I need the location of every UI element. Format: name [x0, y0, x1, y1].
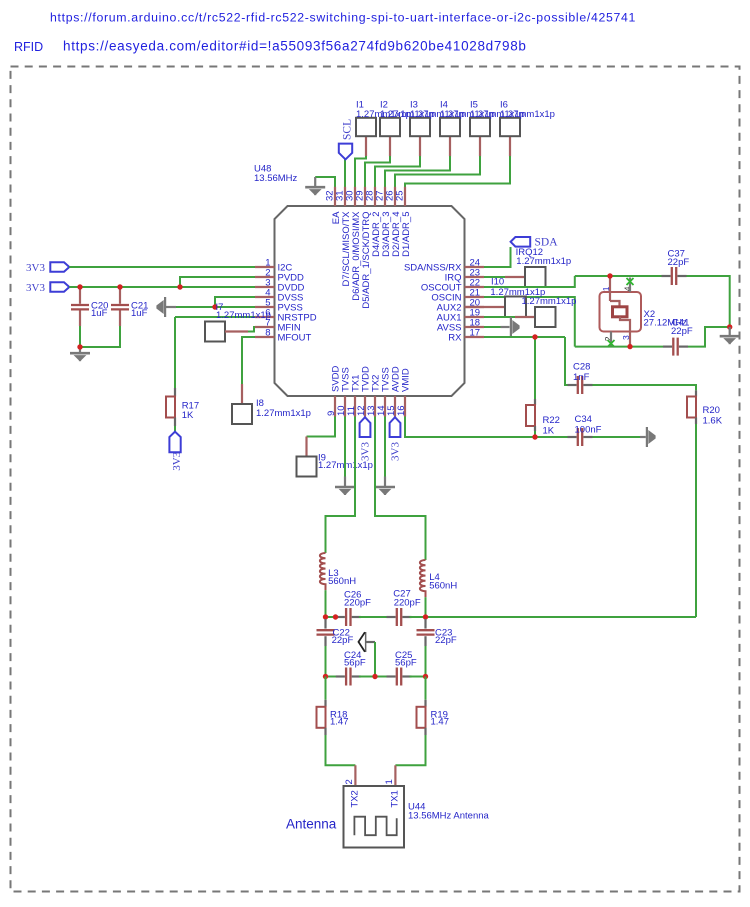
pin 20 AUX2 [437, 298, 484, 314]
wire pin13 TX2 to L4 [375, 417, 426, 561]
pin 3 DVDD [255, 278, 305, 294]
capacitor C21 [111, 305, 129, 309]
resistor R20 top lead [695, 390, 697, 396]
wire branch to pin2 PVDD [180, 277, 255, 287]
wire C34 to ground [593, 436, 641, 438]
junction C24/C25 mid [372, 674, 377, 679]
capacitor C20 top lead [79, 287, 81, 304]
wire header I11 stub [515, 316, 535, 318]
wire header I3 stub [419, 136, 421, 156]
crystal pin2 no-connect [610, 332, 612, 347]
pin 28 D4/ADR_2 [365, 187, 383, 257]
wire IRQ12 stub [505, 276, 525, 278]
crystal pin1 lead [609, 276, 611, 301]
junction crystal pin1 [607, 273, 612, 278]
junction C23/C25/R19 [423, 674, 428, 679]
wire C20 to ground [79, 326, 81, 347]
wire 3V3 rail to pin3 DVDD [69, 286, 255, 288]
junction L4/C23/C27 [423, 614, 428, 619]
wire R20 to antenna net [695, 424, 697, 617]
capacitor C20 [71, 305, 89, 309]
ground PVSS (sideways) [166, 306, 176, 308]
header IRQ12 1.27mm1x1p [525, 267, 546, 287]
wire I5 to U48 pin 26 [395, 156, 480, 187]
junction C21/3V3 [117, 284, 122, 289]
wire I6 to U48 pin 25 [405, 156, 510, 187]
wire pin23 IRQ to IRQ12 [484, 276, 505, 278]
wire I7 stub [225, 330, 248, 332]
power flag 3V3 pin3 [50, 282, 69, 291]
wire L3 to C26 node [325, 590, 327, 617]
svg-text:56pF: 56pF [344, 657, 366, 668]
op IC U48 MFRC522 body [275, 206, 465, 396]
wire branch to pin4 DVSS [215, 297, 255, 307]
wire C21 to ground node [80, 326, 120, 347]
pin 22 OSCOUT [421, 278, 484, 294]
wire C41 to ground [688, 327, 730, 347]
wire C25 node to R19 [425, 677, 427, 700]
svg-text:100nF: 100nF [575, 425, 602, 436]
svg-text:C34: C34 [575, 414, 592, 425]
wire R17 to pin6 NRSTPD [175, 316, 255, 318]
pin 29 D5/ADR_1/SCK/DTRQ [355, 187, 373, 309]
pin 12 TVDD [356, 366, 372, 417]
wire EA pin 32 to ground [315, 177, 335, 187]
pin 30 D6/ADR_0/MOSI/MX [345, 187, 363, 301]
capacitor C25 [387, 668, 412, 686]
crystal pin3 lead [629, 332, 631, 347]
svg-text:22pF: 22pF [332, 635, 354, 646]
svg-text:TX1: TX1 [389, 790, 400, 807]
wire R18 to antenna TX2 [326, 735, 356, 765]
wire antenna TX1 stub [394, 765, 396, 786]
resistor R17 bottom lead [174, 418, 176, 427]
wire I4 to U48 pin 27 [385, 156, 450, 187]
resistor R19 bottom lead [424, 728, 426, 735]
pin 5 PVSS [255, 298, 303, 314]
inductor L3 [320, 553, 326, 590]
wire C27 node to R20 [410, 616, 697, 618]
svg-text:56pF: 56pF [395, 657, 417, 668]
pin 23 IRQ [445, 268, 484, 284]
wire R22 to VMID net [534, 431, 536, 437]
wire C26 to C27 [359, 616, 389, 618]
pin 26 D2/ADR_4 [385, 187, 403, 257]
net flag SCL [339, 144, 352, 160]
junction crystal ground [727, 324, 732, 329]
resistor R22 bottom lead [534, 426, 536, 431]
svg-text:Antenna: Antenna [286, 817, 337, 832]
wire header I2 stub [389, 136, 391, 156]
pin 18 AVSS [437, 318, 484, 334]
junction PVDD branch [177, 284, 182, 289]
wire I2 to U48 pin 29 [365, 156, 390, 187]
wire ground to pin5 PVSS [176, 306, 255, 308]
svg-text:25: 25 [395, 190, 406, 201]
wire SCL flag to pin 31 [344, 160, 346, 188]
junction C22/C24/R18 [323, 674, 328, 679]
svg-text:1.47: 1.47 [330, 717, 349, 728]
power flag 3V3 AVDD pin15 [390, 417, 401, 437]
wire crystal bottom node [575, 346, 663, 348]
svg-text:22pF: 22pF [668, 257, 690, 268]
wire pin8 MFOUT to I8 [242, 337, 255, 384]
svg-text:1uF: 1uF [91, 308, 108, 319]
pin 2 PVDD [255, 268, 304, 284]
svg-text:1.27mm1x1p: 1.27mm1x1p [256, 408, 311, 419]
wire I3 to U48 pin 28 [375, 156, 420, 187]
svg-text:RX: RX [448, 332, 462, 343]
crystal X2 body [600, 292, 642, 332]
pin 9 SVDD [326, 365, 342, 416]
svg-text:RFID: RFID [14, 40, 43, 54]
pin 16 VMID [396, 368, 412, 416]
wire C37 to ground [687, 276, 730, 327]
wire C24 node to R18 [325, 677, 327, 700]
pin 13 TX2 [366, 375, 382, 417]
header I5 1.27mm1x1p [470, 118, 490, 136]
ground AVSS (sideways) [501, 326, 510, 328]
svg-text:1.27mm1x1p: 1.27mm1x1p [216, 310, 271, 321]
pin 1 I2C [255, 258, 292, 274]
ground TVSS pin10 [344, 477, 346, 487]
wire C24 to C25 [359, 676, 389, 678]
capacitor C22 [317, 630, 335, 634]
junction RX/R22 [532, 334, 537, 339]
wire C22 to C24 node [325, 646, 327, 677]
svg-text:1K: 1K [182, 410, 194, 421]
header I4 1.27mm1x1p [440, 118, 460, 136]
resistor R18 top lead [324, 700, 326, 707]
junction L3/C22/C26 [323, 614, 328, 619]
header I6 1.27mm1x1p [500, 118, 520, 136]
junction C26 lead [333, 614, 338, 619]
wire 3V3 to pin1 I2C [69, 266, 255, 268]
svg-text:3V3: 3V3 [359, 442, 371, 461]
capacitor C41 [663, 338, 688, 356]
ground C34 (sideways) [640, 436, 646, 438]
pin 32 EA [325, 187, 343, 224]
svg-text:D1/ADR_5: D1/ADR_5 [401, 212, 412, 257]
capacitor C26 [336, 608, 361, 626]
crystal pin4 no-connect [629, 278, 631, 293]
header I3 1.27mm1x1p [410, 118, 430, 136]
svg-text:1.27mm1x1p: 1.27mm1x1p [500, 109, 555, 120]
resistor R17 top lead [174, 388, 176, 397]
crystal X2 element [610, 301, 620, 307]
capacitor C27 [387, 608, 412, 626]
pin 25 D1/ADR_5 [395, 187, 413, 257]
pin 8 MFOUT [255, 328, 311, 344]
svg-text:13.56MHz: 13.56MHz [254, 173, 298, 184]
pin 4 DVSS [255, 288, 303, 304]
svg-text:1: 1 [384, 779, 395, 784]
svg-text:22pF: 22pF [671, 326, 693, 337]
wire C24 node left [326, 676, 338, 678]
inductor L4 [420, 560, 426, 597]
pin 19 AUX1 [437, 308, 484, 324]
pin 27 D3/ADR_3 [375, 187, 393, 257]
wire TX1 node [326, 616, 339, 618]
junction C20/C21 ground [77, 344, 82, 349]
svg-text:220pF: 220pF [394, 597, 421, 608]
wire crystal top node [575, 275, 662, 277]
wire L4 to C27 node [425, 597, 427, 617]
pin 21 OSCIN [431, 288, 484, 304]
header I9 1.27mm1x1p [297, 457, 317, 477]
wire header I4 stub [449, 136, 451, 156]
svg-text:1K: 1K [543, 426, 555, 437]
svg-text:3V3: 3V3 [389, 442, 401, 461]
resistor R22 top lead [534, 399, 536, 405]
svg-text:2: 2 [344, 779, 355, 784]
wire NRSTPD down to R17 [174, 317, 176, 388]
power flag 3V3 TVDD pin12 [360, 417, 371, 437]
antenna U44 body [344, 786, 405, 848]
wire pin20 AUX2 to I10 [465, 306, 506, 308]
svg-text:3V3: 3V3 [26, 282, 45, 294]
capacitor C22 bottom lead [324, 636, 326, 646]
pin 31 D7/SCL/MISO/TX [335, 187, 353, 287]
svg-text:R22: R22 [543, 415, 560, 426]
resistor R20 bottom lead [695, 418, 697, 425]
pin 14 TVSS [376, 367, 392, 416]
resistor R18 bottom lead [324, 728, 326, 735]
svg-text:1uF: 1uF [131, 308, 148, 319]
wire pin10 TVSS to ground [344, 417, 346, 477]
wire C28 to R20 [593, 385, 697, 390]
svg-text:VMID: VMID [401, 368, 412, 392]
wire I7 to pin7 MFIN [248, 327, 255, 332]
capacitor C37 [662, 267, 687, 285]
wire I9 stub [305, 437, 307, 457]
power flag 3V3 pin1 [50, 262, 69, 271]
capacitor C28 [568, 376, 593, 394]
wire R19 to antenna TX1 [395, 735, 425, 765]
wire header I6 stub [509, 136, 511, 156]
header I11 1.27mm1x1p [535, 307, 556, 327]
resistor R20 [687, 397, 696, 418]
capacitor C22 top lead [324, 619, 326, 629]
capacitor C23 bottom lead [424, 636, 426, 646]
ground C20/C21 [79, 347, 81, 352]
wire pin19 AUX1 to header I11 [484, 316, 515, 318]
svg-text:17: 17 [470, 328, 481, 339]
wire RX to R22 [534, 337, 536, 399]
pin 6 NRSTPD [255, 308, 317, 324]
junction R22/VMID [532, 434, 537, 439]
wire C25 node right [410, 676, 426, 678]
wire pin16 VMID to C34 [405, 417, 568, 438]
wire header I5 stub [479, 136, 481, 156]
wire C23 to C25 node [425, 646, 427, 677]
pin 24 SDA/NSS/RX [404, 258, 484, 274]
wire pin9 SVDD to I9 [307, 417, 336, 437]
svg-text:1.27mm1x1p: 1.27mm1x1p [522, 296, 577, 307]
svg-text:3V3: 3V3 [171, 451, 183, 470]
svg-text:3V3: 3V3 [26, 262, 45, 274]
wire header I1 stub [365, 136, 367, 156]
pin 15 AVDD [386, 366, 402, 416]
header I2 1.27mm1x1p [380, 118, 400, 136]
junction C20/3V3 [77, 284, 82, 289]
wire pin17 RX [484, 336, 565, 338]
ground EA [314, 177, 316, 186]
svg-text:8: 8 [265, 328, 270, 339]
power flag 3V3 below R17 [169, 432, 180, 453]
wire pin24 to SDA flag [484, 247, 511, 267]
resistor R19 [417, 707, 426, 728]
ground TVSS pin14 [384, 477, 386, 487]
wire pin11 TX1 to L3 [326, 417, 356, 554]
header I1 1.27mm1x1p [356, 118, 376, 136]
svg-text:SCL: SCL [341, 119, 353, 140]
header I10 1.27mm1x1p [505, 297, 526, 318]
ground crystal [729, 327, 731, 335]
wire pin21 OSCIN to crystal [484, 297, 575, 347]
svg-text:MFOUT: MFOUT [278, 332, 312, 343]
wire I1 to U48 pin 30 [355, 156, 366, 187]
antenna coil symbol [354, 817, 396, 836]
resistor R18 [317, 707, 326, 728]
svg-text:220pF: 220pF [344, 597, 371, 608]
svg-text:13.56MHz Antenna: 13.56MHz Antenna [408, 811, 490, 822]
resistor R19 top lead [424, 700, 426, 707]
resistor R17 [166, 397, 175, 418]
wire R17 to 3V3 flag [174, 426, 176, 432]
capacitor C23 [417, 630, 435, 634]
junction DVSS/PVSS [212, 304, 217, 309]
pin 11 TX1 [346, 375, 362, 417]
svg-text:TX2: TX2 [349, 790, 360, 807]
svg-text:1.6K: 1.6K [703, 415, 723, 426]
svg-text:560nH: 560nH [328, 576, 356, 587]
svg-text:22pF: 22pF [435, 635, 457, 646]
resistor R22 [526, 405, 535, 426]
svg-text:560nH: 560nH [429, 581, 457, 592]
capacitor C23 top lead [424, 619, 426, 629]
wire pin22 OSCOUT to crystal [484, 276, 575, 287]
svg-text:https://easyeda.com/editor#id=: https://easyeda.com/editor#id=!a55093f56… [63, 39, 527, 54]
wire antenna TX2 stub [354, 765, 356, 786]
svg-text:1nF: 1nF [573, 372, 590, 383]
capacitor C34 [568, 428, 593, 446]
pin 10 TVSS [336, 367, 352, 416]
svg-text:https://forum.arduino.cc/t/rc5: https://forum.arduino.cc/t/rc522-rfid-rc… [50, 11, 636, 25]
header I7 1.27mm1x1p [205, 322, 225, 342]
junction crystal pin3 [627, 344, 632, 349]
net arrow flag GND antenna mid [364, 632, 366, 652]
wire arrow flag to C24/C25 node [374, 642, 376, 677]
wire I8 stub [241, 384, 243, 404]
wire RX down to C28 [565, 337, 569, 385]
pin 7 MFIN [255, 318, 301, 334]
wire pin18 AVSS to ground [484, 326, 501, 328]
svg-text:1.47: 1.47 [431, 717, 450, 728]
capacitor C24 [336, 668, 361, 686]
capacitor C21 top lead [119, 287, 121, 304]
svg-text:16: 16 [396, 405, 407, 416]
header I8 1.27mm1x1p [232, 404, 252, 424]
wire pin14 TVSS to ground [384, 417, 386, 477]
svg-text:1.27mm1x1p: 1.27mm1x1p [516, 256, 571, 267]
pin 17 RX [448, 328, 484, 344]
